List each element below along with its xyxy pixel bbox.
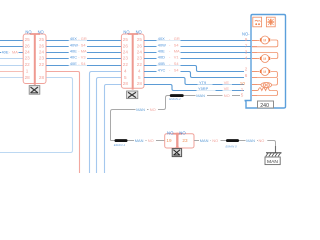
svg-text:M: M: [263, 57, 266, 61]
svg-text:4: 4: [138, 69, 141, 74]
wire label 40W-S4: [157, 42, 181, 47]
gray wire MAN trunk to fuse EMAN-2 and U240 pin 5: [111, 96, 241, 141]
svg-text:23: 23: [182, 138, 188, 143]
svg-text:M: M: [263, 70, 266, 74]
svg-text:Y5RP: Y5RP: [198, 86, 209, 91]
svg-text:EMAN-1: EMAN-1: [114, 143, 126, 147]
wire into C1 pin 23 left: [0, 58, 23, 60]
wire label Y5RP-VE: [197, 86, 233, 91]
wire into C1 pin 25 left: [0, 40, 23, 42]
U240 pin numbers top group: [240, 37, 248, 98]
svg-text:26: 26: [25, 43, 31, 48]
svg-text:23: 23: [39, 56, 45, 61]
svg-text:NO: NO: [179, 130, 186, 135]
wire 40W-S4 C2 to U240 pin 7: [144, 46, 251, 48]
wire into C1 pin 28 left: [0, 77, 23, 79]
svg-text:4: 4: [124, 69, 127, 74]
wire label 4YC-S4: [157, 67, 181, 72]
svg-text:NO: NO: [25, 30, 31, 35]
svg-text:NO: NO: [123, 30, 129, 35]
svg-text:25: 25: [39, 37, 45, 42]
svg-text:40W: 40W: [70, 42, 78, 47]
wire 40C-V3 C1 to C2: [46, 58, 121, 60]
svg-text:24: 24: [137, 50, 143, 55]
ECU box U240: [245, 15, 286, 109]
svg-text:10: 10: [240, 81, 246, 86]
fuse EMAN-0: [226, 139, 239, 142]
svg-text:GR: GR: [174, 36, 180, 41]
svg-text:MA: MA: [174, 49, 180, 54]
svg-text:28: 28: [25, 75, 31, 80]
svg-text:5: 5: [138, 75, 141, 80]
svg-text:S4: S4: [174, 61, 180, 66]
wire label 40E-MA: [1, 49, 19, 54]
svg-text:MAN: MAN: [136, 107, 145, 112]
svg-text:NO: NO: [212, 138, 218, 143]
svg-text:GR: GR: [81, 36, 87, 41]
wire label MAN-NO at pin 5: [196, 93, 233, 98]
svg-text:NO: NO: [259, 138, 265, 143]
wire 4YC-S4 C2 to U240 pin 6 with jog: [144, 72, 244, 78]
wire C1 pin 28 right exit down then left: [0, 78, 73, 153]
wire 40E-MA C1 to C2: [46, 52, 121, 54]
wire label MAN-NO before ground: [246, 138, 268, 143]
wire label YT9-VE: [198, 80, 233, 85]
wire into C1 pin 24 left: [0, 52, 23, 54]
gray wire bottom run to fuse EMAN-1: [111, 140, 165, 142]
wire label 40E-MA: [157, 49, 181, 54]
svg-text:22: 22: [25, 62, 31, 67]
svg-text:VE: VE: [224, 86, 230, 91]
relay icon C below C3: [172, 149, 181, 157]
svg-text:MAN: MAN: [246, 138, 255, 143]
U240 pin ticks: [252, 41, 257, 96]
gray wire fuse EMAN-0 to ground: [239, 141, 276, 153]
C2 left pin numbers: [123, 37, 129, 86]
svg-text:S4: S4: [81, 61, 87, 66]
svg-text:40X: 40X: [158, 36, 165, 41]
svg-text:24: 24: [25, 50, 31, 55]
wire label 40W-S4: [69, 42, 87, 47]
U240 icon square fan: [266, 17, 275, 27]
svg-text:M: M: [263, 39, 266, 43]
wire label 40X-GR: [157, 36, 181, 41]
svg-text:MA: MA: [12, 49, 18, 54]
svg-text:40B: 40B: [158, 61, 165, 66]
U240 motor M1: [252, 36, 278, 47]
wire 40D-V1 C2 to U240 pin 4: [144, 58, 251, 60]
svg-text:7: 7: [245, 43, 248, 48]
wire label MAN-NO before C3: [134, 138, 156, 143]
wire label 40E-MA: [69, 49, 87, 54]
svg-text:1: 1: [26, 69, 29, 74]
U240 icon square AC: [253, 17, 262, 27]
svg-text:5: 5: [124, 75, 127, 80]
wire Y5RP-VE C2 pin 28 to U240 pin 1: [144, 85, 244, 91]
svg-text:NO: NO: [167, 130, 174, 135]
wire label MAN-NO on vertical run: [136, 107, 159, 112]
svg-text:S4: S4: [174, 67, 180, 72]
C2 right pin numbers: [137, 37, 143, 86]
svg-text:25: 25: [25, 37, 31, 42]
svg-text:23: 23: [25, 56, 31, 61]
svg-text:240: 240: [260, 103, 269, 109]
svg-text:40W: 40W: [158, 42, 166, 47]
U240 motor M2: [252, 53, 278, 63]
U240 motor M3: [252, 68, 277, 78]
svg-text:19: 19: [166, 138, 172, 143]
svg-text:MAN: MAN: [200, 138, 209, 143]
svg-text:YT9: YT9: [199, 80, 206, 85]
svg-text:VE: VE: [224, 80, 230, 85]
svg-text:40E: 40E: [158, 49, 165, 54]
relay icon A below C1: [29, 86, 40, 95]
wire 40B-S4 C2 to U240 pin 2 with jog: [144, 66, 244, 72]
svg-text:3: 3: [245, 50, 248, 55]
svg-text:1: 1: [241, 87, 244, 92]
wire C2 pin 5 down-left: [97, 78, 122, 174]
wire label 40X-GR: [69, 36, 87, 41]
ground symbol MAN: [266, 146, 282, 156]
svg-text:V3: V3: [81, 55, 86, 60]
wire label 40D-V1: [157, 55, 181, 60]
wire 40W-S4 C1 to C2: [46, 46, 121, 48]
connector C3 bottom: [165, 133, 194, 149]
svg-text:26: 26: [123, 43, 129, 48]
svg-text:EMAN 0: EMAN 0: [226, 144, 238, 148]
svg-text:MAN: MAN: [135, 138, 144, 143]
fuse EMAN-1: [115, 139, 128, 142]
svg-text:4: 4: [245, 56, 248, 61]
svg-text:25: 25: [137, 37, 143, 42]
svg-text:2: 2: [245, 67, 248, 72]
wire label 40B-S4: [157, 61, 181, 66]
svg-text:NO-: NO-: [242, 32, 250, 37]
wire label 40B-S4: [69, 61, 87, 66]
wire 40X-GR C1 to C2: [46, 40, 121, 42]
svg-text:MAN: MAN: [196, 93, 205, 98]
wire 40B-S4 C1 to C2: [46, 65, 121, 67]
wire YT9-VE C2 pin 5 to U240 pin 10: [144, 78, 244, 85]
fuse EMAN-2: [170, 94, 184, 97]
U240 sensor oval: [252, 78, 277, 88]
svg-text:22: 22: [123, 62, 129, 67]
svg-text:24: 24: [39, 50, 45, 55]
svg-text:NO: NO: [150, 107, 156, 112]
wire label MAN-NO after C3: [199, 138, 221, 143]
svg-text:25: 25: [123, 37, 129, 42]
wire into C1 pin 22 left: [0, 65, 23, 67]
wire into C1 pin 26 left: [0, 46, 23, 48]
svg-text:S4: S4: [174, 42, 180, 47]
svg-text:MA: MA: [81, 49, 87, 54]
svg-text:5: 5: [241, 93, 244, 98]
svg-text:9: 9: [245, 37, 248, 42]
svg-text:NO: NO: [148, 138, 154, 143]
C1 left pin numbers: [25, 37, 31, 80]
svg-text:23: 23: [137, 56, 143, 61]
svg-text:24: 24: [123, 50, 129, 55]
svg-text:40C: 40C: [70, 55, 77, 60]
svg-text:26: 26: [39, 43, 45, 48]
svg-text:V1: V1: [174, 55, 179, 60]
svg-text:40X: 40X: [70, 36, 77, 41]
connector C1 body: [23, 33, 46, 84]
svg-text:26: 26: [137, 43, 143, 48]
svg-text:6: 6: [245, 73, 248, 78]
wire C1 pin 1 right exit down to bottom: [46, 72, 79, 174]
svg-text:S4: S4: [81, 42, 87, 47]
U240 resistor zigzag: [252, 88, 278, 96]
svg-text:NO: NO: [224, 93, 230, 98]
wire 40X-GR C2 to U240 pin 9: [144, 40, 251, 42]
svg-text:NO: NO: [136, 30, 142, 35]
svg-text:40E: 40E: [70, 49, 77, 54]
wire label 40C-V3: [69, 55, 87, 60]
ground label MAN: [265, 157, 280, 165]
svg-text:40E: 40E: [70, 61, 77, 66]
svg-text:22: 22: [39, 62, 45, 67]
svg-text:22: 22: [137, 62, 143, 67]
svg-text:28: 28: [137, 81, 143, 86]
svg-text:23: 23: [123, 56, 129, 61]
svg-text:MAN: MAN: [267, 159, 278, 165]
U240 ref label 240: [258, 101, 274, 109]
svg-text:NO: NO: [38, 30, 44, 35]
wire into C1 pin 1 left: [0, 71, 23, 73]
relay icon B below C2: [127, 91, 138, 99]
svg-text:40D: 40D: [158, 55, 165, 60]
svg-text:EMAN-2: EMAN-2: [169, 97, 181, 101]
connector C2 body: [121, 33, 144, 89]
wire C2 pin 4 down-left: [90, 72, 122, 174]
wire C2 pin 28 down-left: [105, 85, 122, 174]
svg-text:4YC: 4YC: [158, 67, 166, 72]
wire 40E-MA C2 to U240 pin 3: [144, 52, 251, 54]
C1 right pin numbers: [39, 37, 45, 80]
svg-text:28: 28: [39, 75, 45, 80]
gray wire C3 to fuse EMAN-0: [194, 140, 226, 142]
svg-text:28: 28: [123, 81, 129, 86]
